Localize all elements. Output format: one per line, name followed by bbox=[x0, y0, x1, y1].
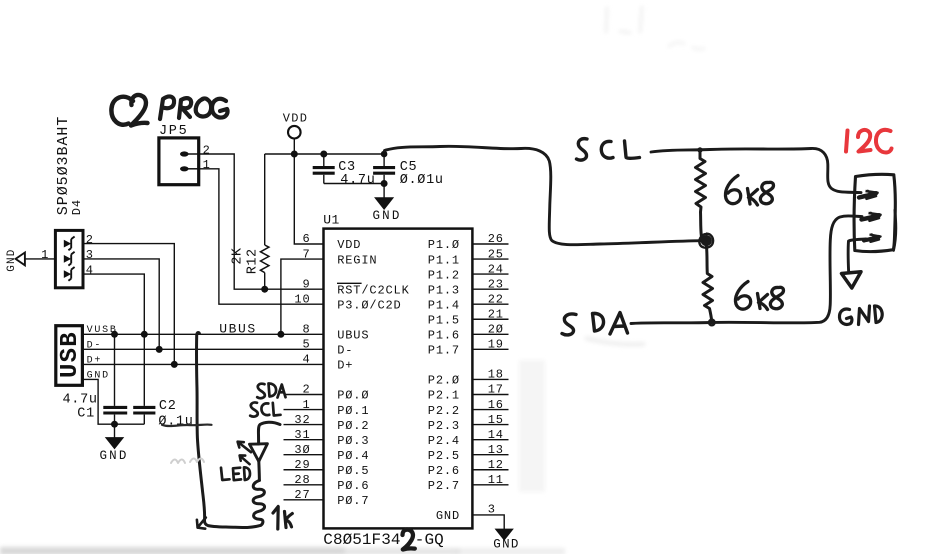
svg-text:17: 17 bbox=[488, 383, 504, 397]
svg-text:Ø.1u: Ø.1u bbox=[158, 415, 193, 430]
label 1k (handwritten) bbox=[273, 507, 278, 530]
svg-text:25: 25 bbox=[488, 247, 504, 261]
svg-text:1: 1 bbox=[41, 248, 49, 262]
svg-text:P2.5: P2.5 bbox=[428, 449, 460, 463]
connector I2C (handwritten box) bbox=[854, 174, 895, 251]
svg-text:P2.4: P2.4 bbox=[428, 434, 460, 448]
label I2C (handwritten, red) bbox=[846, 131, 848, 152]
svg-text:REGIN: REGIN bbox=[337, 253, 377, 267]
wire C3-C5 bottom rail bbox=[324, 183, 384, 185]
pin 12 (P2.6) bbox=[472, 469, 508, 471]
pin I2C.3 (scribble) bbox=[864, 237, 879, 241]
capacitor C5 bbox=[383, 154, 385, 166]
wire JP5.2 to RST/C2CLK bbox=[199, 154, 324, 289]
annotation pencil squiggle bbox=[171, 459, 204, 464]
wire JP5.1 to P3.0/C2D bbox=[199, 169, 324, 304]
capacitor C3 bbox=[323, 154, 325, 166]
pin 21 (P1.5) bbox=[472, 318, 508, 320]
svg-text:3: 3 bbox=[86, 248, 94, 262]
svg-text:P1.1: P1.1 bbox=[428, 253, 460, 267]
svg-text:P3.Ø/C2D: P3.Ø/C2D bbox=[337, 298, 401, 312]
svg-text:21: 21 bbox=[488, 307, 504, 321]
svg-text:P2.3: P2.3 bbox=[428, 419, 460, 433]
svg-text:15: 15 bbox=[488, 413, 504, 427]
resistor 6k8 bottom (handwritten) bbox=[703, 247, 713, 321]
svg-text:7: 7 bbox=[302, 247, 310, 261]
pin 15 (P2.3) bbox=[472, 424, 508, 426]
svg-text:P1.5: P1.5 bbox=[428, 313, 460, 327]
wire D+ rail bbox=[82, 363, 323, 365]
svg-text:PØ.7: PØ.7 bbox=[337, 494, 369, 508]
ground GND (decoupling caps) bbox=[383, 184, 385, 199]
svg-text:2Ø: 2Ø bbox=[488, 323, 504, 337]
svg-text:USB: USB bbox=[57, 331, 84, 378]
svg-text:P2.1: P2.1 bbox=[428, 389, 460, 403]
label 6k8 top (handwritten) bbox=[725, 176, 740, 204]
svg-text:GND: GND bbox=[99, 449, 128, 463]
pin 2 (P&#216;.&#216;) bbox=[284, 394, 324, 396]
svg-text:1: 1 bbox=[203, 158, 211, 172]
ground GND (I2C, handwritten) bbox=[842, 272, 862, 288]
svg-text:U1: U1 bbox=[323, 213, 340, 228]
svg-text:29: 29 bbox=[294, 458, 310, 472]
label LED (handwritten) bbox=[221, 468, 230, 480]
svg-text:PØ.6: PØ.6 bbox=[337, 479, 369, 493]
pin 3&#216; (P&#216;.4) bbox=[284, 454, 324, 456]
label 2 (handwritten digit in C8051F342) bbox=[403, 530, 415, 550]
svg-text:D+: D+ bbox=[337, 359, 353, 373]
svg-text:32: 32 bbox=[294, 413, 310, 427]
svg-text:P2.7: P2.7 bbox=[428, 479, 460, 493]
label SDA (handwritten, right) bbox=[562, 314, 576, 335]
pin 11 (P2.7) bbox=[472, 484, 508, 486]
pin 1 (P&#216;.1) bbox=[284, 409, 324, 411]
capacitor C2 bbox=[133, 407, 155, 413]
pin 28 (P&#216;.6) bbox=[284, 484, 324, 486]
svg-text:16: 16 bbox=[488, 398, 504, 412]
svg-text:14: 14 bbox=[488, 428, 504, 442]
svg-text:2: 2 bbox=[203, 143, 211, 157]
wire VDD rail to pin6 bbox=[294, 154, 323, 244]
svg-text:23: 23 bbox=[488, 277, 504, 291]
svg-text:R12: R12 bbox=[245, 248, 260, 274]
svg-text:27: 27 bbox=[294, 488, 310, 502]
svg-text:8: 8 bbox=[302, 323, 310, 337]
ground GND (U1 pin3) bbox=[496, 529, 512, 539]
pin 18 (P2.&#216;) bbox=[472, 378, 508, 380]
svg-text:4.7u: 4.7u bbox=[340, 173, 375, 188]
pin 29 (P&#216;.5) bbox=[284, 469, 324, 471]
pin I2C.1 (scribble) bbox=[859, 193, 876, 197]
svg-text:11: 11 bbox=[488, 473, 504, 487]
wire REGIN to VBUS bbox=[281, 259, 324, 334]
svg-text:19: 19 bbox=[488, 338, 504, 352]
svg-text:GND: GND bbox=[493, 538, 519, 552]
wire P0.2 to LED (handwritten) bbox=[258, 422, 280, 443]
pin 19 (P1.7) bbox=[472, 348, 508, 350]
svg-text:10: 10 bbox=[294, 292, 310, 306]
svg-text:P1.6: P1.6 bbox=[428, 329, 460, 343]
label GND (handwritten, I2C) bbox=[839, 309, 851, 324]
pin JP5.1 bbox=[180, 166, 189, 171]
wire USB GND bbox=[82, 379, 144, 424]
svg-text:GND: GND bbox=[372, 209, 401, 223]
svg-text:PØ.2: PØ.2 bbox=[337, 419, 369, 433]
svg-text:PØ.5: PØ.5 bbox=[337, 464, 369, 478]
svg-text:C2: C2 bbox=[159, 399, 177, 414]
svg-text:C1: C1 bbox=[77, 407, 95, 422]
pin 2&#216; (P1.6) bbox=[472, 333, 508, 335]
svg-text:GND: GND bbox=[436, 509, 460, 523]
connector USB bbox=[56, 326, 83, 386]
wire VUSB rail / net VBUS bbox=[82, 333, 323, 335]
pin 22 (P1.4) bbox=[472, 303, 508, 305]
label SCL (handwritten, right) bbox=[577, 139, 588, 160]
svg-text:P1.3: P1.3 bbox=[428, 283, 460, 297]
junction SDA/6k8 (small ring) bbox=[709, 320, 715, 326]
wire VDD rail bbox=[265, 153, 384, 155]
svg-text:26: 26 bbox=[488, 232, 504, 246]
pin 16 (P2.2) bbox=[472, 409, 508, 411]
svg-text:PØ.3: PØ.3 bbox=[337, 434, 369, 448]
ground GND (D4 pin1) bbox=[6, 248, 18, 271]
wire D4 pin1 bbox=[25, 258, 56, 260]
pin 24 (P1.2) bbox=[472, 273, 508, 275]
svg-text:P1.2: P1.2 bbox=[428, 268, 460, 282]
svg-text:Ø.Ø1u: Ø.Ø1u bbox=[400, 173, 444, 188]
svg-text:PØ.4: PØ.4 bbox=[337, 449, 369, 463]
svg-text:P2.6: P2.6 bbox=[428, 464, 460, 478]
pin 25 (P1.1) bbox=[472, 258, 508, 260]
junction 6k8 center (handwritten blob) bbox=[699, 234, 713, 248]
pin 27 (P&#216;.7) bbox=[284, 499, 324, 501]
svg-text:VDD: VDD bbox=[283, 112, 309, 126]
resistor 6k8 top (handwritten) bbox=[696, 150, 706, 236]
pin 32 (P&#216;.2) bbox=[284, 424, 324, 426]
capacitor C1 bbox=[114, 334, 116, 406]
svg-text:6: 6 bbox=[302, 232, 310, 246]
wire SDA (handwritten) bbox=[631, 216, 862, 324]
svg-text:24: 24 bbox=[488, 262, 504, 276]
pin I2C.2 (scribble) bbox=[862, 215, 880, 219]
svg-text:-GQ: -GQ bbox=[415, 531, 444, 549]
svg-text:UBUS: UBUS bbox=[219, 322, 257, 337]
pin 13 (P2.5) bbox=[472, 454, 508, 456]
ground GND (USB filter) bbox=[114, 424, 116, 438]
svg-text:2K: 2K bbox=[231, 247, 246, 265]
svg-text:RST/C2CLK: RST/C2CLK bbox=[337, 283, 409, 297]
svg-text:PØ.1: PØ.1 bbox=[337, 404, 369, 418]
pin 14 (P2.4) bbox=[472, 439, 508, 441]
wire LED to R (handwritten) bbox=[257, 461, 261, 480]
svg-text:PØ.Ø: PØ.Ø bbox=[337, 389, 369, 403]
wire I2C.3 to GND (handwritten) bbox=[848, 239, 866, 271]
junction SCL/6k8 bbox=[697, 147, 702, 152]
svg-text:2: 2 bbox=[86, 233, 94, 247]
svg-text:P2.Ø: P2.Ø bbox=[428, 374, 460, 388]
svg-text:D4: D4 bbox=[70, 199, 84, 215]
label SCL (handwritten, P0.1) bbox=[250, 402, 258, 416]
svg-text:5: 5 bbox=[302, 338, 310, 352]
svg-text:4.7u: 4.7u bbox=[63, 393, 98, 408]
wire 1k to VBUS (handwritten loop) bbox=[205, 521, 261, 528]
svg-text:1: 1 bbox=[302, 398, 310, 412]
LED D? (handwritten) bbox=[250, 444, 268, 462]
svg-text:31: 31 bbox=[294, 428, 310, 442]
svg-text:12: 12 bbox=[488, 458, 504, 472]
svg-text:P1.Ø: P1.Ø bbox=[428, 238, 460, 252]
svg-text:4: 4 bbox=[302, 353, 310, 367]
svg-text:22: 22 bbox=[488, 292, 504, 306]
svg-text:UBUS: UBUS bbox=[337, 329, 369, 343]
wire VDD stem bbox=[293, 139, 295, 154]
svg-text:D-: D- bbox=[337, 344, 353, 358]
pin 23 (P1.3) bbox=[472, 288, 508, 290]
label SDA (handwritten, P0.0) bbox=[257, 384, 265, 398]
annotation underline 0.1u bbox=[162, 425, 212, 427]
pin 17 (P2.1) bbox=[472, 394, 508, 396]
svg-text:28: 28 bbox=[294, 473, 310, 487]
resistor R12 2K bbox=[264, 154, 266, 245]
svg-text:P1.4: P1.4 bbox=[428, 298, 460, 312]
wire SCL (handwritten) bbox=[651, 148, 861, 192]
pin 26 (P1.&#216;) bbox=[472, 243, 508, 245]
wire VDD to 6k8 junction (handwritten) bbox=[385, 146, 702, 244]
svg-text:4: 4 bbox=[86, 263, 94, 277]
svg-text:3Ø: 3Ø bbox=[294, 443, 310, 457]
pin JP5.2 bbox=[180, 151, 189, 156]
svg-text:2: 2 bbox=[302, 383, 310, 397]
svg-text:C8Ø51F34: C8Ø51F34 bbox=[323, 531, 400, 549]
svg-text:P1.7: P1.7 bbox=[428, 344, 460, 358]
svg-text:P2.2: P2.2 bbox=[428, 404, 460, 418]
resistor 1k (handwritten) bbox=[253, 480, 264, 525]
wire D- rail bbox=[82, 348, 323, 350]
diode array D4 SP0503BAHT bbox=[55, 116, 72, 216]
svg-text:13: 13 bbox=[488, 443, 504, 457]
label 6k8 bottom (handwritten) bbox=[735, 282, 750, 310]
svg-text:9: 9 bbox=[302, 277, 310, 291]
svg-text:VDD: VDD bbox=[337, 238, 361, 252]
label C2 PROG (handwritten) bbox=[111, 95, 227, 126]
svg-text:18: 18 bbox=[488, 368, 504, 382]
pin 31 (P&#216;.3) bbox=[284, 439, 324, 441]
